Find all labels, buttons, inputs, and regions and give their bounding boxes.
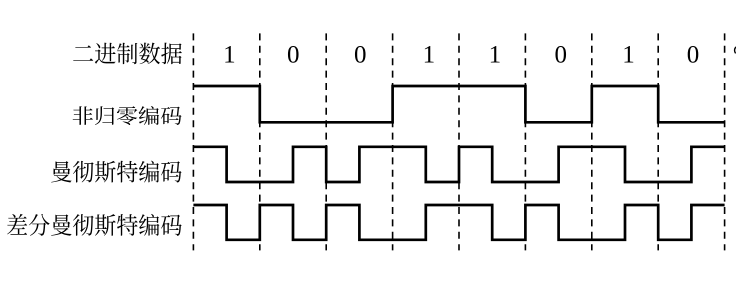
svg-text:1: 1 xyxy=(223,42,236,69)
svg-text:1: 1 xyxy=(423,42,436,69)
svg-text:1: 1 xyxy=(622,42,635,69)
svg-text:0: 0 xyxy=(554,42,567,69)
svg-text:1: 1 xyxy=(489,42,502,69)
svg-text:0: 0 xyxy=(687,42,700,69)
svg-text:0: 0 xyxy=(287,42,300,69)
svg-text:0: 0 xyxy=(354,42,367,69)
